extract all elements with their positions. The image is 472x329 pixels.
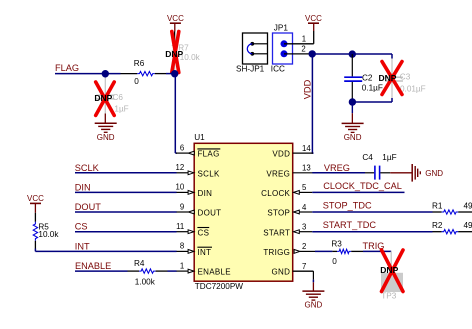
svg-text:CLOCK_TDC_CAL: CLOCK_TDC_CAL: [323, 181, 402, 191]
svg-text:3: 3: [302, 223, 306, 232]
svg-text:R3: R3: [331, 239, 342, 248]
svg-text:C2: C2: [362, 74, 373, 83]
svg-text:R1: R1: [432, 201, 443, 210]
svg-text:INT: INT: [75, 241, 90, 251]
wire INT from R5: [35, 249, 176, 252]
svg-text:GND: GND: [272, 268, 291, 277]
svg-text:VDD: VDD: [272, 150, 290, 159]
wire TRIGG to R3: [315, 250, 332, 252]
ground below C2: [342, 102, 364, 142]
wire C6 tap: [104, 74, 106, 78]
svg-text:9: 9: [180, 202, 184, 211]
svg-text:FLAG: FLAG: [198, 150, 220, 159]
wire U1 GND pin 7: [293, 271, 314, 282]
U1 pin 3 START (right): [263, 223, 312, 238]
svg-text:DIN: DIN: [198, 189, 213, 198]
svg-text:1.00k: 1.00k: [135, 277, 156, 286]
wire DOUT: [75, 211, 177, 213]
svg-text:DOUT: DOUT: [198, 209, 222, 218]
svg-text:0: 0: [134, 77, 139, 86]
svg-text:R4: R4: [134, 259, 145, 268]
resistor R1 49.9: [432, 201, 472, 214]
svg-text:FLAG: FLAG: [55, 63, 79, 73]
U1 pin 14 VDD (right): [272, 144, 313, 159]
svg-text:49: 49: [464, 201, 472, 210]
wire CLOCK_TDC_CAL: [312, 191, 404, 193]
wire junction down to U1 pin 6: [175, 74, 177, 153]
wire TRIG: [363, 250, 391, 252]
DNP marker for TP3: [380, 250, 403, 292]
wire ENABLE left: [75, 270, 128, 272]
U1 pin 10 DIN (left): [176, 183, 213, 198]
svg-text:13: 13: [302, 164, 311, 173]
svg-text:CS: CS: [75, 222, 88, 232]
U1 pin 7 GND (right): [272, 262, 313, 277]
svg-text:0.1µF: 0.1µF: [362, 83, 383, 92]
svg-text:SCLK: SCLK: [198, 169, 220, 178]
power symbol VCC (above R7): [167, 14, 184, 32]
svg-text:VREG: VREG: [324, 163, 350, 173]
U1 pin 8 INT (left): [176, 242, 212, 257]
DNP marker for C3: [379, 62, 403, 95]
DNP marker for C6: [94, 82, 114, 115]
svg-text:1µF: 1µF: [114, 105, 128, 114]
svg-text:1: 1: [302, 35, 306, 44]
wire DIN: [75, 191, 177, 193]
svg-text:12: 12: [176, 163, 185, 172]
svg-text:DIN: DIN: [75, 182, 91, 192]
svg-text:CLOCK: CLOCK: [261, 189, 290, 198]
power symbol VCC (above JP1): [305, 14, 322, 31]
op IC U1 TDC7200PW body: [194, 133, 293, 291]
wire R4 to U1 pin 1: [168, 270, 177, 272]
svg-text:DNP: DNP: [379, 73, 397, 83]
svg-text:VCC: VCC: [27, 194, 44, 203]
svg-text:TDC7200PW: TDC7200PW: [195, 282, 244, 291]
capacitor C6 (DNP 1uF): [96, 78, 128, 114]
svg-text:STOP_TDC: STOP_TDC: [323, 201, 372, 211]
junction VDD node: [309, 50, 316, 57]
junction at FLAG/C6 tap: [102, 70, 109, 77]
U1 pin 5 CLOCK (right): [261, 183, 312, 198]
svg-text:7: 7: [302, 262, 306, 271]
U1 pin 13 VREG (right): [266, 164, 313, 179]
svg-text:C6: C6: [113, 93, 124, 102]
svg-text:ICC: ICC: [271, 65, 285, 74]
svg-text:U1: U1: [194, 133, 205, 142]
svg-text:INT: INT: [198, 248, 212, 257]
wire CS: [75, 231, 177, 233]
resistor R5 10.0k: [33, 213, 59, 249]
svg-text:4: 4: [302, 203, 307, 212]
resistor R3 0 ohm: [331, 239, 363, 266]
resistor R6 (0 ohm): [121, 59, 167, 86]
resistor R4 1.00k: [128, 259, 168, 286]
wire VREG: [312, 172, 365, 174]
junction at R6/R7/FLAG-pin node: [171, 70, 178, 77]
svg-text:VCC: VCC: [305, 14, 322, 23]
svg-text:DNP: DNP: [165, 49, 183, 59]
capacitor C3 (DNP 0.01uF): [385, 59, 426, 99]
wire C3 vertical branch: [391, 54, 393, 102]
svg-text:2: 2: [302, 242, 306, 251]
svg-text:10.0k: 10.0k: [38, 230, 59, 239]
svg-text:VDD: VDD: [302, 79, 312, 99]
wire R6 to junction: [166, 73, 175, 75]
U1 pin 1 ENABLE (left): [176, 261, 231, 276]
svg-text:DOUT: DOUT: [75, 202, 101, 212]
svg-text:TP3: TP3: [381, 292, 396, 301]
junction C2 bottom: [349, 98, 356, 105]
wire JP1 pin2 to node VDD: [284, 53, 311, 55]
svg-text:ENABLE: ENABLE: [198, 268, 231, 277]
svg-text:10: 10: [176, 183, 185, 192]
wire SCLK: [75, 172, 177, 174]
svg-text:6: 6: [180, 143, 184, 152]
svg-text:STOP: STOP: [267, 209, 290, 218]
wire FLAG net (left segment): [55, 73, 121, 75]
svg-text:CS: CS: [198, 228, 210, 237]
ground below C6: [95, 114, 117, 142]
svg-text:0.01µF: 0.01µF: [400, 84, 426, 93]
svg-text:DNP: DNP: [380, 265, 398, 275]
svg-text:1: 1: [180, 261, 184, 270]
junction C2 top: [349, 50, 356, 57]
wire STOP_TDC: [312, 211, 432, 213]
svg-text:GND: GND: [305, 301, 323, 310]
shunt SH-JP1: [236, 33, 268, 73]
svg-text:GND: GND: [425, 169, 443, 178]
U1 pin 11 CS (left): [176, 222, 209, 237]
svg-text:1µF: 1µF: [382, 153, 396, 162]
svg-text:0: 0: [332, 257, 337, 266]
U1 pin 12 SCLK (left): [176, 163, 220, 178]
svg-text:JP1: JP1: [274, 23, 289, 32]
capacitor C2 0.1uF: [344, 54, 383, 102]
capacitor C4 1uF: [362, 153, 396, 179]
power symbol VCC (above R5): [27, 194, 44, 213]
svg-text:VREG: VREG: [266, 169, 290, 178]
svg-text:VCC: VCC: [167, 14, 184, 23]
resistor R7 (DNP 10.0k, vertical): [172, 32, 200, 72]
svg-text:SCLK: SCLK: [75, 163, 100, 173]
wire VDD down to U1 pin 14: [312, 54, 314, 153]
wire C2 bottom to C3 branch: [352, 101, 392, 103]
svg-text:2: 2: [301, 45, 305, 54]
U1 pin 6 FLAG (left): [176, 143, 220, 158]
U1 pin 4 STOP (right): [267, 203, 312, 218]
svg-text:8: 8: [180, 242, 184, 251]
svg-text:TRIGG: TRIGG: [263, 248, 290, 257]
wire VDD node horizontal: [311, 53, 393, 55]
svg-text:11: 11: [176, 222, 184, 231]
ground right of C4 (sideways): [390, 164, 443, 182]
header JP1: [271, 23, 293, 73]
svg-text:DNP: DNP: [94, 93, 112, 103]
svg-text:C4: C4: [362, 153, 373, 162]
svg-text:START: START: [263, 228, 290, 237]
ground below U1 pin 7: [302, 282, 324, 309]
DNP marker for R7: [165, 32, 183, 73]
wire JP1 pin1 to VCC: [284, 31, 314, 44]
svg-text:GND: GND: [344, 133, 362, 142]
wire START_TDC: [312, 231, 432, 233]
svg-text:R6: R6: [134, 59, 145, 68]
test point TP3 (DNP): [381, 251, 403, 300]
U1 pin 9 DOUT (left): [176, 202, 221, 217]
svg-text:SH-JP1: SH-JP1: [236, 64, 265, 73]
svg-text:R2: R2: [432, 221, 443, 230]
svg-text:ENABLE: ENABLE: [75, 261, 111, 271]
svg-text:C3: C3: [400, 73, 411, 82]
svg-text:49: 49: [464, 221, 472, 230]
resistor R2 49.9: [432, 221, 472, 234]
svg-text:5: 5: [302, 183, 307, 192]
svg-text:14: 14: [302, 144, 311, 153]
U1 pin 2 TRIGG (right): [263, 242, 315, 257]
svg-text:GND: GND: [97, 133, 115, 142]
svg-text:START_TDC: START_TDC: [323, 220, 377, 230]
